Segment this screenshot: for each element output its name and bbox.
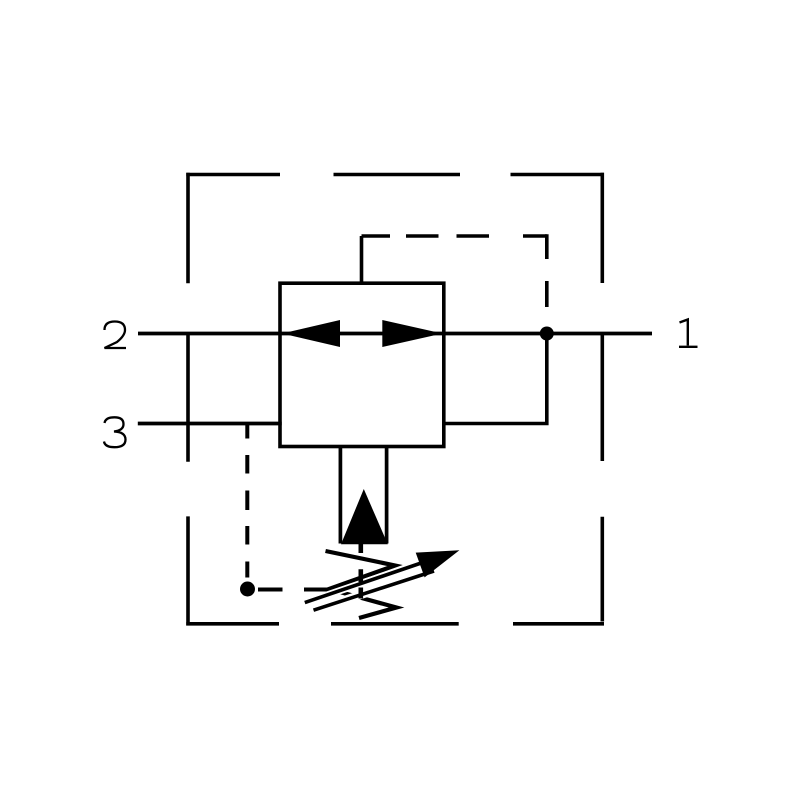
- envelope dashed border top: [186, 173, 604, 177]
- stem below poppet triangle (three visible segments): [358, 544, 363, 599]
- dashed pilot line horizontal (top): [362, 234, 547, 238]
- adjustment arrow shaft upper line: [305, 560, 430, 603]
- relief poppet triangle (solid, pointing up): [341, 489, 388, 544]
- port line 2 / 1 main horizontal wire: [138, 332, 652, 336]
- label 3: [104, 417, 126, 447]
- dashed pilot line vertical corner wrap: [545, 234, 549, 307]
- envelope dashed border bottom: [186, 622, 604, 626]
- envelope dashed border left: [186, 173, 190, 626]
- label 1: [679, 320, 698, 347]
- right flow arrowhead inside valve: [382, 320, 442, 347]
- spring zigzag: [326, 551, 397, 618]
- envelope dashed border right: [600, 173, 604, 622]
- dashed drain line horizontal to spring: [258, 588, 330, 592]
- valve body U1: [280, 283, 444, 446]
- junction node dot at drain corner: [240, 582, 255, 597]
- wire loop from valve right side to node on port 1: [444, 334, 547, 424]
- junction node dot on port 1: [540, 327, 554, 341]
- left flow arrowhead inside valve: [282, 320, 340, 347]
- left pilot dashed vertical (port 3 drain): [245, 425, 249, 578]
- adjustment arrow shaft lower line: [314, 571, 435, 610]
- adjustment arrow shaft lower line casing: [314, 571, 435, 610]
- valve lower channel left wall: [339, 447, 343, 544]
- label 2: [105, 322, 127, 349]
- solid pilot stub above valve: [360, 236, 364, 283]
- adjustment arrowhead: [416, 550, 460, 577]
- valve lower channel right wall: [385, 447, 389, 544]
- spring white casing: [326, 551, 397, 618]
- port line 3 wire: [138, 422, 282, 426]
- adjustment arrow shaft upper line casing: [305, 560, 430, 603]
